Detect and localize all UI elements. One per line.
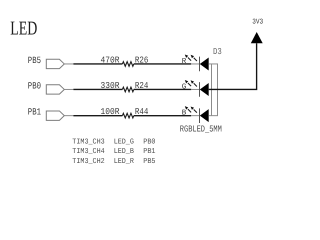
note table line 2 — [72, 147, 156, 156]
port PB0 — [28, 81, 65, 95]
title LED — [10, 19, 37, 40]
port PB5 — [28, 55, 65, 69]
svg-text:R: R — [182, 58, 187, 66]
wire PB5 pin stub — [64, 63, 73, 65]
wire LED blue cathode pin — [191, 115, 199, 117]
node anode bus outer — [217, 64, 219, 116]
wire anode to 3V3 — [209, 43, 257, 89]
svg-text:PB1: PB1 — [28, 107, 41, 118]
wire LED green cathode pin — [191, 88, 199, 90]
svg-text:330R: 330R — [101, 81, 121, 91]
wire blue anode stub — [209, 115, 218, 117]
svg-text:470R: 470R — [101, 56, 121, 66]
svg-text:PB0: PB0 — [143, 138, 156, 147]
svg-text:PB5: PB5 — [28, 55, 41, 66]
wire LED red cathode pin — [191, 63, 199, 65]
port PB1 — [28, 107, 65, 121]
svg-text:3V3: 3V3 — [252, 19, 263, 27]
wire R24 to LED green — [134, 88, 191, 90]
svg-text:TIM3_CH4: TIM3_CH4 — [72, 147, 105, 156]
LED D3 blue element — [182, 106, 209, 123]
power 3V3 — [251, 19, 263, 44]
svg-text:D3: D3 — [213, 47, 222, 57]
svg-text:PB0: PB0 — [28, 81, 41, 92]
svg-text:TIM3_CH3: TIM3_CH3 — [72, 138, 105, 147]
wire PB5 to R26 — [73, 63, 122, 65]
wire PB1 pin stub — [64, 115, 73, 117]
LED D3 green element — [182, 80, 209, 97]
svg-text:100R: 100R — [101, 107, 121, 117]
resistor R24 — [122, 87, 133, 92]
svg-text:B: B — [182, 110, 187, 118]
wire red anode stub — [209, 63, 218, 65]
resistor R44 — [122, 113, 133, 118]
svg-text:LED: LED — [10, 19, 37, 40]
svg-text:PB1: PB1 — [143, 148, 156, 156]
svg-text:LED_B: LED_B — [114, 148, 135, 156]
wire PB1 to R44 — [73, 115, 122, 117]
wire R26 to LED red — [134, 63, 191, 65]
note table line 3 — [72, 157, 156, 166]
wire PB0 pin stub — [64, 88, 73, 90]
wire PB0 to R24 — [73, 88, 122, 90]
node anode bus inner — [211, 64, 213, 116]
svg-text:LED_G: LED_G — [114, 138, 135, 147]
svg-text:G: G — [182, 82, 187, 91]
resistor R26 — [122, 62, 133, 67]
note table line 1 — [72, 138, 156, 147]
svg-text:TIM3_CH2: TIM3_CH2 — [72, 157, 104, 166]
svg-text:RGBLED_5MM: RGBLED_5MM — [180, 123, 222, 134]
wire R44 to LED blue — [134, 115, 191, 117]
svg-text:PB5: PB5 — [143, 158, 156, 166]
LED D3 red element — [182, 54, 209, 71]
svg-text:LED_R: LED_R — [114, 158, 135, 166]
